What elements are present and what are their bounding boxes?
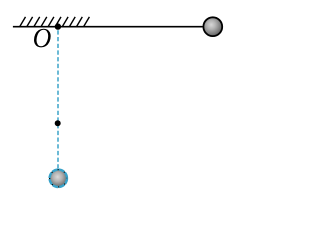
label O bbox=[34, 29, 51, 48]
bottom ball (ghost position) bbox=[50, 170, 67, 187]
right ball bbox=[203, 17, 222, 36]
dashed plumb line bbox=[57, 30, 59, 169]
bottom ball dashed cyan ring bbox=[50, 170, 67, 187]
pivot dot O bbox=[55, 23, 61, 29]
hatching bbox=[20, 17, 90, 27]
midpoint dot bbox=[55, 120, 61, 126]
ceiling line bbox=[13, 26, 203, 28]
